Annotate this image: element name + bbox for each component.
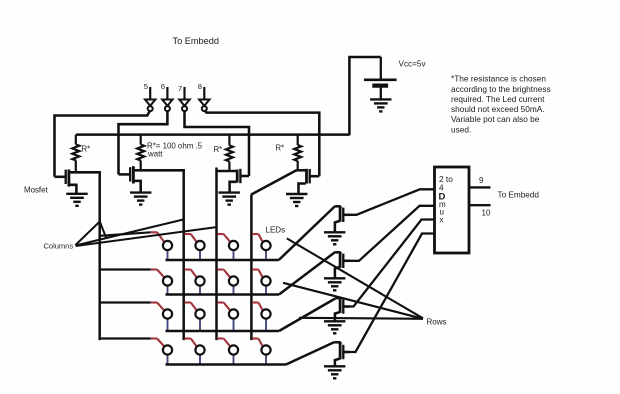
mosfet Q4 (row 4 driver) [335,342,350,359]
label To Embedd (right) [498,191,540,200]
label pin 9 [479,176,484,185]
note text about resistance choice [451,74,551,135]
decoder U1 (2 to 4 Dmux) [435,167,470,253]
LED D31 (row 3, col 1) [151,303,172,331]
wire Q1 source [335,221,340,232]
wire row 4 bus [166,342,335,365]
label Mosfet [24,186,48,195]
svg-text:Mosfet: Mosfet [24,186,48,195]
wire M3 drain to column 3 [215,170,236,173]
ground (Q4) [324,366,345,378]
wire Q3 gate to decoder input 3 [343,220,434,307]
svg-text:LEDs: LEDs [266,226,286,235]
pin 7 connector arrow [178,84,190,111]
LED D42 (row 4, col 2) [185,339,205,365]
svg-text:should not exceed 50mA.: should not exceed 50mA. [451,104,545,114]
label To Embedd (top, pins 5-8 to embedded controller) [173,36,219,46]
label pin 10 [482,209,491,218]
wire column 2 vertical [182,169,185,340]
svg-text:6: 6 [161,82,165,91]
LED D41 (row 4, col 1) [151,339,172,365]
svg-text:5: 5 [144,82,148,91]
svg-text:10: 10 [482,209,491,218]
resistor R3 (R*) [226,135,233,171]
pointer Columns to column 2 [76,220,184,246]
pin 6 connector arrow [161,82,173,111]
LED D12 (row 1, col 2) [185,234,205,260]
svg-text:8: 8 [198,82,202,91]
pointer Columns to column 1 [76,222,107,246]
LED D21 (row 2, col 1) [151,270,172,295]
svg-text:R*: R* [82,145,91,154]
wire U1 output pin 10 [469,204,491,206]
LED D11 (row 1, col 1) [151,232,172,259]
LED D13 (row 1, col 3) [217,234,238,260]
mosfet Q3 (row 3 driver) [335,298,349,314]
wire pin5 to M1 gate [55,110,151,177]
label LEDs [266,226,286,235]
ground (Q1) [324,232,345,244]
wire Q1 gate to decoder input 1 [343,189,434,215]
pin 8 connector arrow [198,82,210,111]
mosfet Q1 (row 1 driver) [335,206,349,222]
wire row 3 bus [166,299,336,332]
wire column 1 vertical [98,171,101,340]
ground (M3) [219,193,240,205]
ground (Q3) [324,321,345,333]
wire Q4 gate to decoder input 4 [343,234,434,353]
svg-text:Rows: Rows [427,318,447,327]
LED D34 (row 3, col 4) [252,303,271,331]
wire row 2 bus [166,252,336,295]
label R*= 100 ohm .5 watt [147,142,203,159]
LED D23 (row 2, col 3) [217,270,238,295]
LED D44 (row 4, col 4) [252,339,271,365]
ground (M4) [286,194,307,206]
ground (Q2) [324,278,345,290]
ground (battery) [370,99,391,111]
mosfet M1 (column 1 driver) [55,170,69,187]
svg-text:according to the brightness: according to the brightness [451,84,551,94]
svg-text:Variable pot can also be: Variable pot can also be [451,114,540,124]
pin 5 connector arrow [144,82,156,111]
mosfet Q2 (row 2 driver) [335,252,349,268]
wire M3 source [230,182,237,193]
label Vcc=5v [399,60,427,69]
wire pin8 to M4 gate [204,110,319,176]
wire Q2 source [335,267,340,278]
svg-text:7: 7 [178,84,182,93]
wire pin6 to M2 gate [119,110,168,174]
LED D43 (row 4, col 3) [217,339,238,365]
svg-text:R*: R* [276,144,285,153]
wire M4 drain [296,169,306,172]
resistor R1 (R*) [72,135,79,173]
resistor R4 (R*) [294,135,301,171]
wire Q2 gate to decoder input 2 [343,206,434,261]
wire column1 branch row2 [100,268,151,270]
wire Vcc bus [76,133,349,136]
svg-text:Columns: Columns [44,242,74,251]
pointer Rows to row 2 [283,283,423,319]
wire Vcc feed (battery to bus) [349,57,380,135]
wire M2 source [134,181,141,192]
pointer Rows to row 1 [287,238,423,318]
svg-text:To Embedd: To Embedd [173,36,219,46]
wire M4 source [299,184,306,194]
pointer Columns to column 3 [76,227,218,246]
svg-text:used.: used. [451,124,471,134]
svg-text:*The resistance is chosen: *The resistance is chosen [451,74,546,84]
label R* (R4) [276,144,285,153]
svg-text:To Embedd: To Embedd [498,191,540,200]
ground (M2) [130,193,151,205]
svg-text:9: 9 [479,176,484,185]
svg-text:x: x [440,215,444,224]
svg-text:R*: R* [214,145,223,154]
LED D32 (row 3, col 2) [185,303,205,331]
label Rows [427,318,447,327]
wire M2 drain to column 2 [134,169,185,172]
wire column1 branch row4 [100,337,151,339]
resistor R2 (R*=100 ohm .5 watt) [137,135,144,171]
svg-text:Vcc=5v: Vcc=5v [399,60,427,69]
label Columns [44,242,74,251]
wire column 3 vertical [215,168,218,341]
svg-text:required. The Led current: required. The Led current [451,94,545,104]
wire M4 drain diagonal to column 4 [251,170,297,194]
mosfet M4 (column 4 driver) [307,169,320,184]
wire column1 branch row1 [100,232,151,236]
wire column1 branch row3 [100,301,151,303]
wire row 1 bus [166,206,336,260]
label 2 to 4 Dmux (inside U1) [439,174,454,224]
pointer Rows to row 3 [299,318,423,319]
wire U1 output pin 9 [469,186,491,188]
wire Q4 source [335,359,340,366]
ground (M1) [66,194,87,206]
LED D24 (row 2, col 4) [252,270,271,295]
wire pin7 to M3 gate [185,110,250,176]
mosfet M3 (column 3 driver) [237,169,249,183]
LED D14 (row 1, col 4) [252,234,271,260]
LED D33 (row 3, col 3) [217,303,238,331]
svg-text:watt: watt [147,149,163,158]
wire M1 drain to column 1 [70,171,101,174]
wire column 4 vertical [250,195,253,340]
mosfet M2 (column 2 driver) [119,166,134,183]
label R* (R1) [82,145,91,154]
battery cell B1 [364,57,397,99]
label R* (R3) [214,145,223,154]
LED D22 (row 2, col 2) [185,270,205,295]
wire M1 source [70,185,77,194]
wire Q3 source [335,312,340,321]
